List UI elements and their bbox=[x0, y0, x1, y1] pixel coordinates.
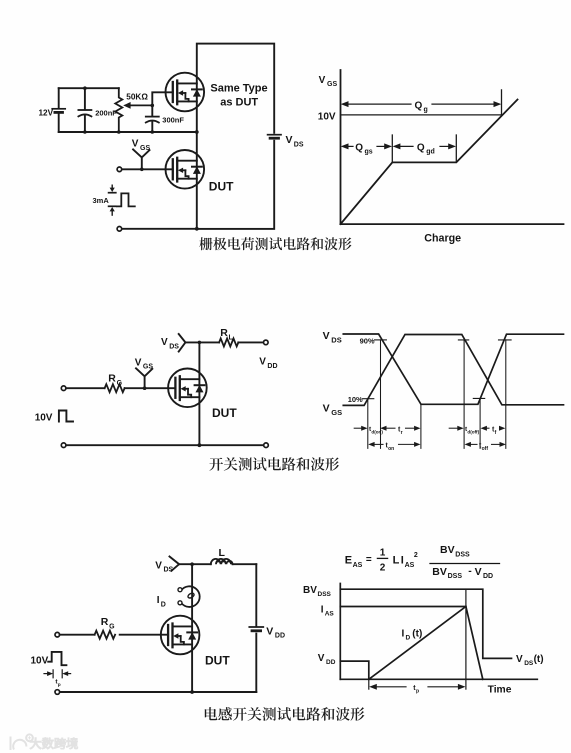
svg-text:DD: DD bbox=[275, 633, 285, 640]
probe VGS bbox=[133, 149, 149, 169]
wire drain rail up bbox=[198, 342, 200, 445]
svg-text:Same Type: Same Type bbox=[210, 83, 267, 95]
svg-text:V: V bbox=[286, 134, 293, 146]
svg-text:90%: 90% bbox=[360, 336, 375, 345]
BVDSS level + VDS waveform top bbox=[340, 589, 511, 658]
svg-text:10%: 10% bbox=[348, 395, 363, 404]
svg-text:DSS: DSS bbox=[455, 552, 470, 559]
svg-text:10V: 10V bbox=[318, 111, 336, 122]
wire gate input to DUT bbox=[122, 168, 173, 170]
mosfet Q1 same type as DUT bbox=[166, 73, 205, 112]
VDD step bbox=[340, 661, 369, 679]
svg-text:D: D bbox=[406, 635, 411, 642]
wire top to inductor bbox=[192, 563, 256, 565]
caption: switching test circuit and waveform (开关测试电路和波形) bbox=[209, 457, 339, 471]
potentiometer 50KΩ body bbox=[115, 88, 122, 132]
current probe ID bbox=[181, 586, 200, 607]
ticks right group bbox=[458, 340, 511, 399]
battery 12V bbox=[58, 88, 60, 132]
IAS level bbox=[340, 606, 466, 608]
svg-text:DUT: DUT bbox=[212, 406, 237, 420]
svg-text:200nF: 200nF bbox=[95, 109, 117, 118]
svg-text:Q: Q bbox=[417, 143, 425, 154]
probe VGS bbox=[136, 368, 152, 388]
svg-text:R: R bbox=[108, 373, 116, 385]
10V level line bbox=[341, 114, 502, 116]
svg-text:d(on): d(on) bbox=[371, 430, 383, 435]
svg-text:V: V bbox=[155, 560, 162, 571]
svg-text:as DUT: as DUT bbox=[220, 96, 258, 108]
svg-text:BV: BV bbox=[303, 585, 317, 596]
svg-text:V: V bbox=[266, 625, 273, 637]
svg-text:DS: DS bbox=[169, 343, 179, 350]
arrow into node (bottom) bbox=[109, 205, 116, 207]
svg-text:I: I bbox=[401, 555, 404, 567]
right rail bbox=[255, 564, 257, 692]
dimension Qg bbox=[346, 103, 411, 105]
gate charge curve bbox=[341, 100, 518, 225]
test fixture box bbox=[197, 44, 274, 229]
mosfet DUT bbox=[166, 150, 205, 189]
wire input to gate bbox=[60, 634, 169, 636]
svg-text:L: L bbox=[229, 334, 234, 341]
wire source rail down bbox=[198, 443, 202, 447]
caption: gate charge test circuit and waveform (栅极电荷测试电路和波形) bbox=[199, 237, 351, 250]
svg-text:R: R bbox=[220, 327, 228, 339]
svg-text:V: V bbox=[318, 653, 325, 664]
svg-text:2: 2 bbox=[414, 552, 418, 559]
svg-text:DSS: DSS bbox=[318, 591, 332, 598]
svg-text:(t): (t) bbox=[412, 628, 422, 639]
wire bottom return bbox=[122, 228, 197, 230]
svg-text:BV: BV bbox=[440, 544, 455, 556]
dimension tr bbox=[380, 426, 386, 431]
tick at Qg end bbox=[501, 90, 503, 115]
y axis bbox=[339, 584, 341, 680]
svg-text:2: 2 bbox=[380, 563, 386, 574]
svg-text:off: off bbox=[482, 446, 489, 452]
svg-text:DS: DS bbox=[294, 142, 304, 149]
capacitor 200nF bbox=[84, 88, 86, 132]
svg-text:E: E bbox=[345, 555, 352, 567]
y axis bbox=[340, 70, 342, 224]
svg-text:V: V bbox=[135, 357, 142, 368]
terminal bottom bbox=[117, 227, 122, 232]
svg-text:I: I bbox=[402, 628, 405, 639]
svg-text:12V: 12V bbox=[39, 109, 54, 118]
terminal bottom bbox=[55, 690, 60, 695]
svg-text:V: V bbox=[323, 330, 330, 342]
probe VDS bbox=[170, 557, 193, 571]
mosfet DUT (switching) bbox=[168, 369, 207, 408]
terminal input bbox=[55, 632, 60, 637]
svg-text:1: 1 bbox=[380, 548, 386, 559]
svg-text:=: = bbox=[366, 555, 372, 566]
dimension Qgd bbox=[398, 145, 414, 147]
svg-text:AS: AS bbox=[405, 562, 415, 569]
svg-text:I: I bbox=[157, 595, 160, 606]
waveform VDS bbox=[343, 334, 563, 404]
inductor L bbox=[211, 559, 233, 564]
wire wiper to gate bbox=[152, 92, 173, 105]
terminal gate input bbox=[117, 167, 122, 172]
battery VDS on right edge of box bbox=[272, 134, 278, 140]
capacitor 300nF bbox=[151, 105, 153, 132]
node dot wiper bbox=[151, 104, 155, 108]
svg-text:I: I bbox=[321, 604, 324, 615]
dimension td(off) bbox=[449, 427, 458, 429]
svg-text:L: L bbox=[219, 547, 226, 559]
wire input to gate bbox=[66, 387, 175, 389]
svg-text:gs: gs bbox=[365, 149, 373, 156]
watermark text 大数跨境 bbox=[30, 738, 78, 749]
svg-text:GS: GS bbox=[331, 408, 342, 417]
wire bottom rail bbox=[66, 444, 264, 446]
svg-text:DD: DD bbox=[483, 573, 493, 580]
dimension ton bbox=[368, 442, 374, 447]
waveform VGS bbox=[343, 335, 563, 406]
svg-text:GS: GS bbox=[140, 145, 150, 152]
svg-text:p: p bbox=[416, 689, 419, 695]
svg-text:V: V bbox=[132, 138, 139, 149]
svg-text:DS: DS bbox=[164, 567, 174, 574]
wire bottom rail bbox=[60, 691, 257, 693]
caption: inductive switching test circuit and waveform (电感开关测试电路和波形) bbox=[205, 707, 365, 721]
svg-text:GS: GS bbox=[327, 81, 337, 88]
dimension td(on) bbox=[354, 427, 362, 429]
resistor RG bbox=[105, 384, 125, 392]
node dot source/rail bbox=[190, 690, 194, 694]
svg-text:r: r bbox=[401, 430, 403, 436]
svg-text:V: V bbox=[516, 654, 523, 665]
ID ramp and fall bbox=[369, 607, 483, 680]
svg-text:V: V bbox=[475, 566, 482, 578]
pulse glyph 10V bbox=[59, 411, 73, 422]
svg-text:D: D bbox=[161, 601, 166, 608]
probe VDS bbox=[179, 334, 200, 352]
svg-text:DD: DD bbox=[326, 659, 336, 666]
svg-text:Time: Time bbox=[488, 684, 512, 695]
mosfet DUT (inductive) bbox=[161, 616, 200, 655]
svg-text:Q: Q bbox=[355, 143, 363, 154]
svg-text:DS: DS bbox=[524, 660, 534, 667]
svg-text:g: g bbox=[424, 107, 428, 114]
dimension tp bbox=[375, 686, 407, 688]
node dot bbox=[195, 227, 199, 231]
svg-text:V: V bbox=[161, 337, 168, 348]
svg-text:50KΩ: 50KΩ bbox=[126, 92, 148, 101]
svg-text:DS: DS bbox=[331, 335, 341, 344]
svg-text:gd: gd bbox=[426, 149, 435, 156]
dimension tp (pulse width) bbox=[44, 673, 49, 675]
pulse glyph 10V bbox=[48, 652, 66, 665]
ticks Qgs Qgd bbox=[391, 135, 393, 162]
svg-text:L: L bbox=[393, 555, 400, 567]
svg-text:10V: 10V bbox=[35, 412, 53, 423]
x axis bbox=[341, 223, 564, 225]
wire: top rail of bias circuit bbox=[59, 87, 119, 89]
svg-text:d(off): d(off) bbox=[467, 430, 479, 435]
svg-text:Q: Q bbox=[415, 101, 423, 112]
node dots 200nF bbox=[83, 86, 87, 90]
svg-text:DD: DD bbox=[267, 363, 277, 370]
terminal VDD bbox=[264, 340, 269, 345]
dimension tf bbox=[481, 426, 487, 431]
svg-text:R: R bbox=[101, 616, 109, 628]
svg-text:BV: BV bbox=[432, 566, 447, 578]
svg-text:on: on bbox=[388, 446, 394, 452]
tick 90% bbox=[375, 339, 387, 341]
vertical tp boundary bbox=[465, 589, 467, 689]
svg-text:GS: GS bbox=[143, 364, 153, 371]
pulse glyph 3mA bbox=[117, 193, 135, 206]
svg-text:V: V bbox=[319, 75, 326, 86]
arrow into node (top) bbox=[111, 185, 113, 189]
battery VDD bbox=[249, 626, 263, 628]
svg-text:V: V bbox=[323, 403, 330, 415]
watermark logo bbox=[11, 734, 33, 750]
svg-text:DUT: DUT bbox=[205, 654, 230, 668]
terminal input bbox=[61, 386, 66, 391]
wire to RL bbox=[199, 341, 263, 343]
terminal bottom left bbox=[61, 443, 66, 448]
svg-text:-: - bbox=[468, 565, 472, 577]
svg-text:AS: AS bbox=[325, 611, 335, 618]
resistor RG bbox=[95, 631, 116, 639]
tick 10% bbox=[363, 398, 374, 400]
measurement verticals bbox=[368, 340, 506, 449]
wire: bottom rail of bias circuit bbox=[59, 131, 197, 133]
svg-text:(t): (t) bbox=[534, 654, 544, 665]
svg-text:300nF: 300nF bbox=[162, 116, 184, 125]
svg-text:DSS: DSS bbox=[448, 573, 463, 580]
svg-text:AS: AS bbox=[353, 562, 363, 569]
potentiometer wiper arrow bbox=[129, 104, 152, 106]
svg-text:10V: 10V bbox=[31, 655, 49, 666]
svg-text:G: G bbox=[109, 623, 115, 630]
wire drain rail up bbox=[191, 564, 193, 692]
svg-text:p: p bbox=[58, 683, 61, 688]
svg-text:Charge: Charge bbox=[424, 233, 461, 245]
x axis bbox=[340, 678, 537, 680]
resistor RL bbox=[219, 338, 238, 346]
svg-text:3mA: 3mA bbox=[93, 196, 110, 205]
svg-text:V: V bbox=[259, 357, 266, 368]
dimension toff bbox=[465, 442, 471, 447]
dimension Qgs bbox=[346, 145, 353, 147]
svg-text:DUT: DUT bbox=[209, 180, 234, 194]
svg-text:G: G bbox=[117, 380, 123, 387]
terminal bottom right bbox=[264, 443, 269, 448]
node dots bottom rail bbox=[117, 130, 121, 134]
